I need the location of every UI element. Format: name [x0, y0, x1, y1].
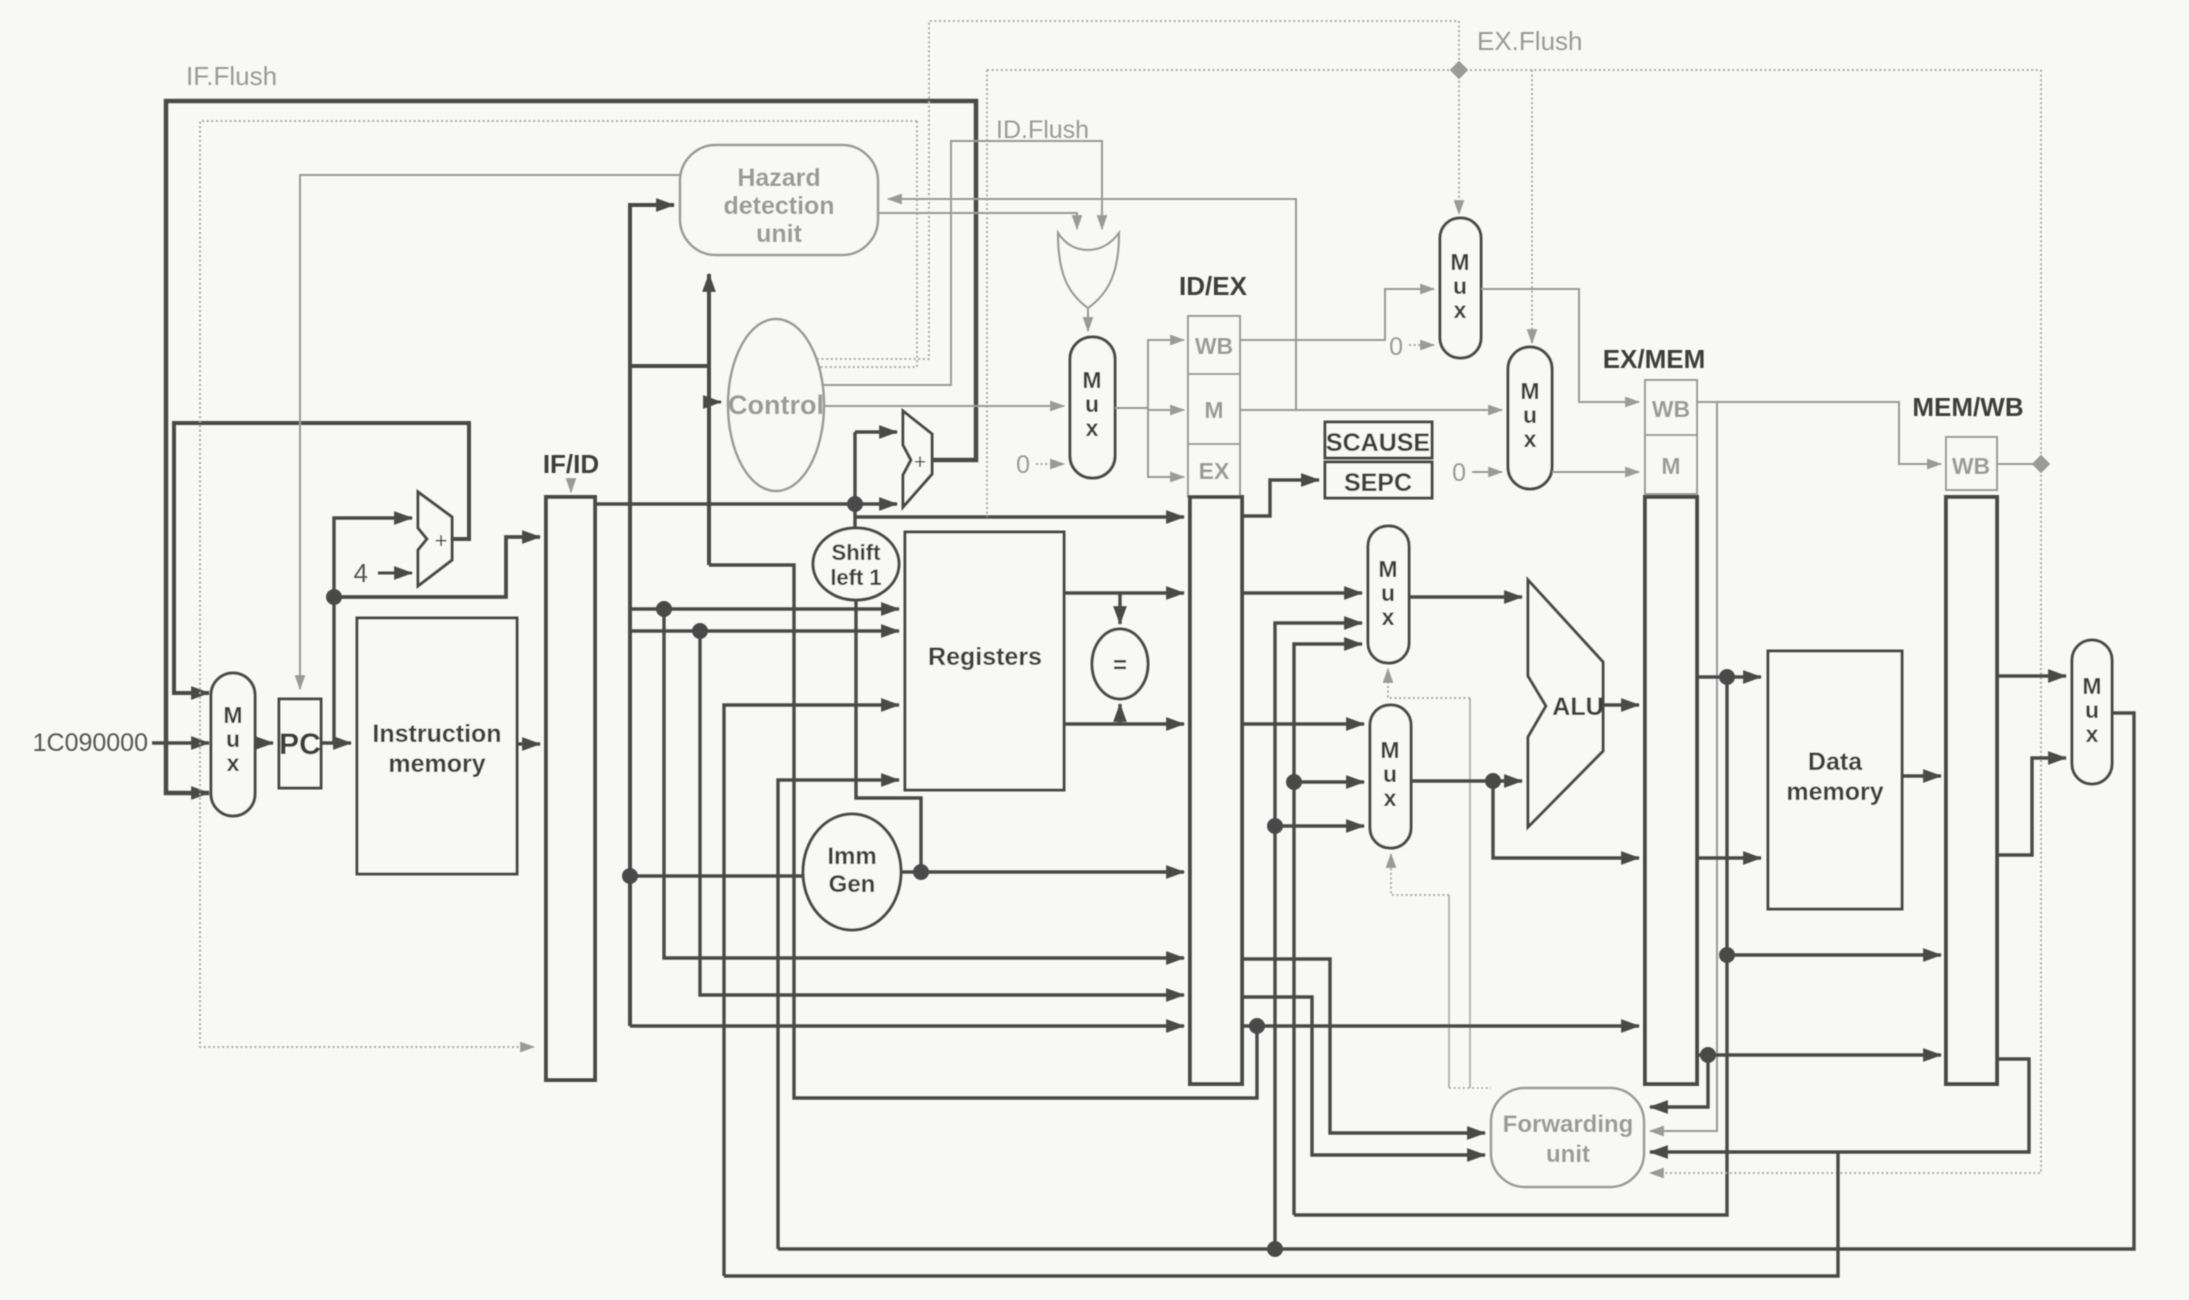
mux forward B: [1370, 705, 1411, 848]
svg-text:MEM/WB: MEM/WB: [1912, 392, 2023, 422]
wire data memory out to MEM/WB: [1902, 774, 1941, 777]
wire EX.Flush dotted net: [987, 21, 2041, 517]
wire IF.Flush gray dotted to IF/ID flush port: [200, 121, 917, 1047]
svg-text:u: u: [2085, 697, 2099, 723]
wire OR output into zero mux: [1087, 308, 1089, 331]
svg-text:ID/EX: ID/EX: [1179, 271, 1248, 301]
wire EX/MEM rd to MEM/WB and forwarding unit: [1650, 1047, 1941, 1107]
svg-text:M: M: [1380, 737, 1399, 763]
svg-text:M: M: [1082, 367, 1101, 393]
svg-text:IF/ID: IF/ID: [543, 449, 599, 479]
svg-text:4: 4: [354, 558, 368, 588]
svg-text:SEPC: SEPC: [1344, 469, 1412, 497]
svg-text:WB: WB: [1952, 453, 1990, 479]
svg-text:WB: WB: [1195, 333, 1233, 359]
wire 0 into flush mux M: [1472, 471, 1502, 473]
svg-text:+: +: [914, 451, 926, 474]
svg-text:EX.Flush: EX.Flush: [1477, 26, 1583, 56]
wire read data 1 to ID/EX with equality tap: [1064, 593, 1184, 624]
svg-text:left 1: left 1: [830, 565, 881, 590]
wire PCWrite gray from hazard unit to PC: [300, 175, 680, 689]
svg-text:Imm: Imm: [827, 843, 876, 870]
mux PC-source: [211, 673, 255, 816]
mux EX.Flush WB: [1440, 218, 1481, 358]
wire immgen input: [630, 874, 802, 877]
svg-text:x: x: [1382, 604, 1395, 630]
svg-text:x: x: [1454, 297, 1467, 323]
svg-text:M: M: [1520, 378, 1539, 404]
wire 0 into flush mux WB: [1409, 344, 1434, 346]
wire flush mux WB out to EX/MEM: [1481, 289, 1639, 402]
wire writeback forward riser into muxes: [1267, 623, 1364, 1257]
svg-text:SCAUSE: SCAUSE: [1326, 429, 1430, 457]
block shift left 1: [813, 528, 899, 600]
wire ALU result distribution: [1294, 669, 1941, 1215]
svg-text:ALU: ALU: [1552, 693, 1603, 721]
register SCAUSE: [1325, 422, 1432, 458]
wire mux B out to ALU and EX/MEM write data: [1411, 773, 1639, 858]
wire read data 2 to ID/EX with equality tap: [1064, 704, 1184, 724]
svg-text:Forwarding: Forwarding: [1503, 1111, 1634, 1138]
block hazard detection unit: [680, 145, 878, 255]
svg-text:x: x: [227, 750, 240, 776]
svg-text:EX/MEM: EX/MEM: [1603, 344, 1706, 374]
mux forward A: [1368, 526, 1409, 663]
wire forward B control dotted: [1448, 895, 1450, 1088]
wire ID/EX rs2 to forwarding unit: [1242, 997, 1485, 1155]
svg-text:M: M: [1661, 453, 1680, 479]
wire MEM/WB read data to writeback mux: [1997, 758, 2066, 855]
register MEM/WB with control box: [1912, 392, 2023, 1084]
wire PC+4 loop (adder1 out up over to PC mux input 0): [174, 423, 469, 693]
register SEPC: [1325, 462, 1432, 498]
block registers: [905, 532, 1064, 790]
wire exception-target thick loop (adder2 out, top frame, into PC mux input 2): [166, 101, 976, 793]
wire PC out to instruction memory with adder tap and IF/ID tap: [321, 518, 540, 743]
wire WB control to flush mux: [1240, 289, 1434, 340]
svg-text:0: 0: [1389, 333, 1403, 361]
wire write data into registers: [778, 780, 899, 1249]
svg-text:0: 0: [1452, 459, 1466, 487]
wire instruction memory out to IF/ID: [517, 742, 540, 745]
wire ID.Flush to OR gate: [817, 21, 1459, 385]
svg-text:=: =: [1113, 652, 1127, 679]
svg-text:x: x: [1524, 426, 1537, 452]
wire hazard unit stall output to OR gate: [878, 213, 1077, 229]
svg-text:u: u: [1381, 580, 1395, 606]
svg-text:EX: EX: [1199, 458, 1230, 484]
wire ID/EX rs1 to forwarding unit: [1242, 959, 1485, 1133]
svg-text:M: M: [1450, 249, 1469, 275]
svg-text:M: M: [1378, 556, 1397, 582]
svg-text:u: u: [1383, 761, 1397, 787]
block data memory: [1768, 651, 1902, 909]
wire zero mux out to ID/EX control boxes: [1115, 340, 1184, 477]
wire instruction bus vertical with taps: [630, 205, 1184, 1026]
wire flush mux M out to EX/MEM: [1552, 471, 1639, 473]
wire read data 1 to forward mux A: [1242, 591, 1362, 594]
mux control-zero: [1070, 337, 1115, 478]
wire write register from MEM/WB rd: [724, 705, 899, 1276]
wire read data 2 to forward mux B: [1242, 722, 1364, 725]
register ID/EX with control boxes: [1179, 271, 1248, 1084]
wire read register 2: [630, 623, 1184, 995]
adder branch target: [903, 411, 932, 507]
svg-text:PC: PC: [279, 728, 321, 761]
wire 1C090000 into PC mux input 1: [152, 741, 209, 744]
wire control output to zero mux gray: [824, 405, 1064, 407]
svg-text:M: M: [2082, 673, 2101, 699]
svg-text:M: M: [1204, 397, 1223, 423]
svg-text:u: u: [1453, 273, 1467, 299]
svg-text:unit: unit: [1546, 1141, 1590, 1168]
svg-text:x: x: [1086, 415, 1099, 441]
block control: [728, 319, 824, 491]
svg-text:M: M: [223, 702, 242, 728]
svg-text:IF.Flush: IF.Flush: [186, 61, 277, 91]
svg-text:u: u: [1085, 391, 1099, 417]
svg-text:unit: unit: [756, 220, 802, 248]
wire ALU result to EX/MEM: [1603, 703, 1639, 706]
mux writeback: [2072, 640, 2112, 784]
svg-text:Gen: Gen: [829, 871, 876, 898]
svg-text:ID.Flush: ID.Flush: [996, 116, 1089, 144]
svg-text:detection: detection: [723, 192, 834, 220]
wire M control to flush mux 2: [1240, 409, 1502, 411]
wire PC mux out to PC: [255, 741, 273, 744]
register IF/ID: [543, 449, 599, 1080]
svg-text:Shift: Shift: [832, 540, 882, 565]
svg-text:0: 0: [1016, 451, 1030, 479]
svg-text:u: u: [1523, 402, 1537, 428]
wire forward A control dotted: [1469, 698, 1471, 1088]
block forwarding unit: [1491, 1088, 1644, 1187]
wire read register 1: [630, 601, 1184, 958]
svg-text:Registers: Registers: [928, 643, 1042, 671]
comparator equality: [1092, 629, 1148, 699]
wire immgen output to ID/EX: [901, 864, 1184, 880]
svg-text:WB: WB: [1652, 396, 1690, 422]
adder PC+4: [418, 492, 452, 586]
node instruction taps: [622, 868, 638, 884]
svg-text:Hazard: Hazard: [737, 164, 820, 192]
block immgen: [803, 814, 901, 930]
svg-text:x: x: [1384, 785, 1397, 811]
wire MEM/WB WB control gray down to forwarding unit: [1650, 70, 2050, 1173]
block instruction memory: [357, 618, 517, 874]
wire 0 into zero mux: [1036, 463, 1064, 465]
svg-text:memory: memory: [1786, 778, 1883, 806]
wire MEM/WB ALU result to writeback mux: [1997, 674, 2066, 677]
wire write data to data memory: [1697, 856, 1761, 859]
wire EX/MEM WB to MEM/WB WB gray: [1650, 402, 1941, 1131]
svg-text:1C090000: 1C090000: [33, 729, 148, 757]
wire PC into branch adder and SEPC line: [595, 432, 1184, 529]
wire mux A out to ALU: [1409, 595, 1522, 598]
wire rd into EX/MEM: [1242, 1018, 1639, 1034]
wire PC to SEPC: [1242, 480, 1319, 516]
svg-text:x: x: [2086, 721, 2099, 747]
wire MEM/WB rd to forwarding unit and write register: [724, 1059, 2029, 1276]
register EX/MEM with control boxes: [1603, 344, 1706, 1084]
wire immgen to shift left 1 riser: [856, 600, 921, 872]
svg-text:u: u: [226, 726, 240, 752]
svg-text:Control: Control: [728, 390, 824, 420]
svg-text:Instruction: Instruction: [372, 720, 501, 748]
register PC: [279, 699, 321, 788]
wire EX/MEM forward riser into muxes: [1286, 644, 1364, 1215]
wire writeback data loop: [778, 713, 2134, 1249]
alu ALU: [1528, 580, 1604, 827]
mux EX.Flush M: [1508, 347, 1552, 489]
wire hazard unit memread input gray: [888, 199, 1296, 410]
wire hazard unit bottom input / control input vertical: [709, 274, 1257, 1098]
svg-text:Data: Data: [1808, 748, 1863, 776]
svg-text:+: +: [435, 528, 448, 553]
gate OR exception flush: [1058, 233, 1119, 308]
wire 4 into adder1: [378, 572, 412, 575]
svg-text:memory: memory: [388, 750, 485, 778]
